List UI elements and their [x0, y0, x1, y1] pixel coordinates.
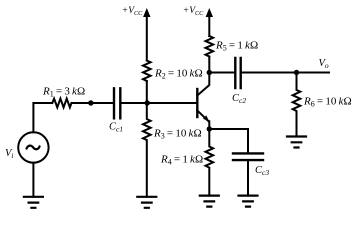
power arrow +Vcc 1 [146, 12, 148, 61]
svg-text:R5 = 1 kΩ: R5 = 1 kΩ [215, 39, 258, 52]
svg-text:R6 = 10 kΩ: R6 = 10 kΩ [303, 96, 352, 109]
wire Cc1 to base node [121, 102, 196, 104]
ground Cc3 [239, 196, 258, 207]
node dot emitter [207, 126, 212, 131]
sine symbol [27, 146, 40, 150]
resistor R5 [206, 36, 214, 57]
wire Cc3 to ground [247, 161, 249, 195]
source V_i [18, 132, 48, 162]
wire R5 to collector node [209, 57, 234, 73]
wire emitter to Cc3 [209, 129, 248, 152]
node dot base [145, 100, 150, 105]
wire R2 to base node [146, 81, 148, 103]
wire R1 to Cc1 [72, 102, 113, 104]
power arrow +Vcc 2 [208, 12, 210, 36]
ground Vi [24, 197, 43, 208]
svg-text:R2 = 10 kΩ: R2 = 10 kΩ [154, 68, 203, 81]
node dot output [294, 70, 299, 75]
resistor R1 [52, 99, 71, 108]
resistor R3 [143, 103, 151, 197]
wire source to ground [32, 163, 34, 197]
resistor R2 [143, 61, 151, 82]
node dot collector [207, 70, 212, 75]
resistor R6 [293, 73, 301, 137]
capacitor Cc2 [235, 58, 240, 88]
node dot after R1 [88, 100, 93, 105]
wire source top to input line [33, 103, 52, 132]
svg-text:R3 = 10 kΩ: R3 = 10 kΩ [153, 128, 202, 141]
svg-text:R4 = 1 kΩ: R4 = 1 kΩ [160, 153, 203, 166]
transistor Q1 [196, 89, 198, 117]
wire Cc2 to output [242, 72, 329, 74]
capacitor Cc3 [233, 153, 263, 160]
ground R4 [200, 196, 219, 207]
svg-text:R1 = 3 kΩ: R1 = 3 kΩ [42, 85, 85, 98]
resistor R4 [206, 129, 214, 196]
ground R6 [287, 137, 306, 148]
capacitor Cc1 [114, 88, 120, 118]
ground R3 [137, 197, 156, 208]
